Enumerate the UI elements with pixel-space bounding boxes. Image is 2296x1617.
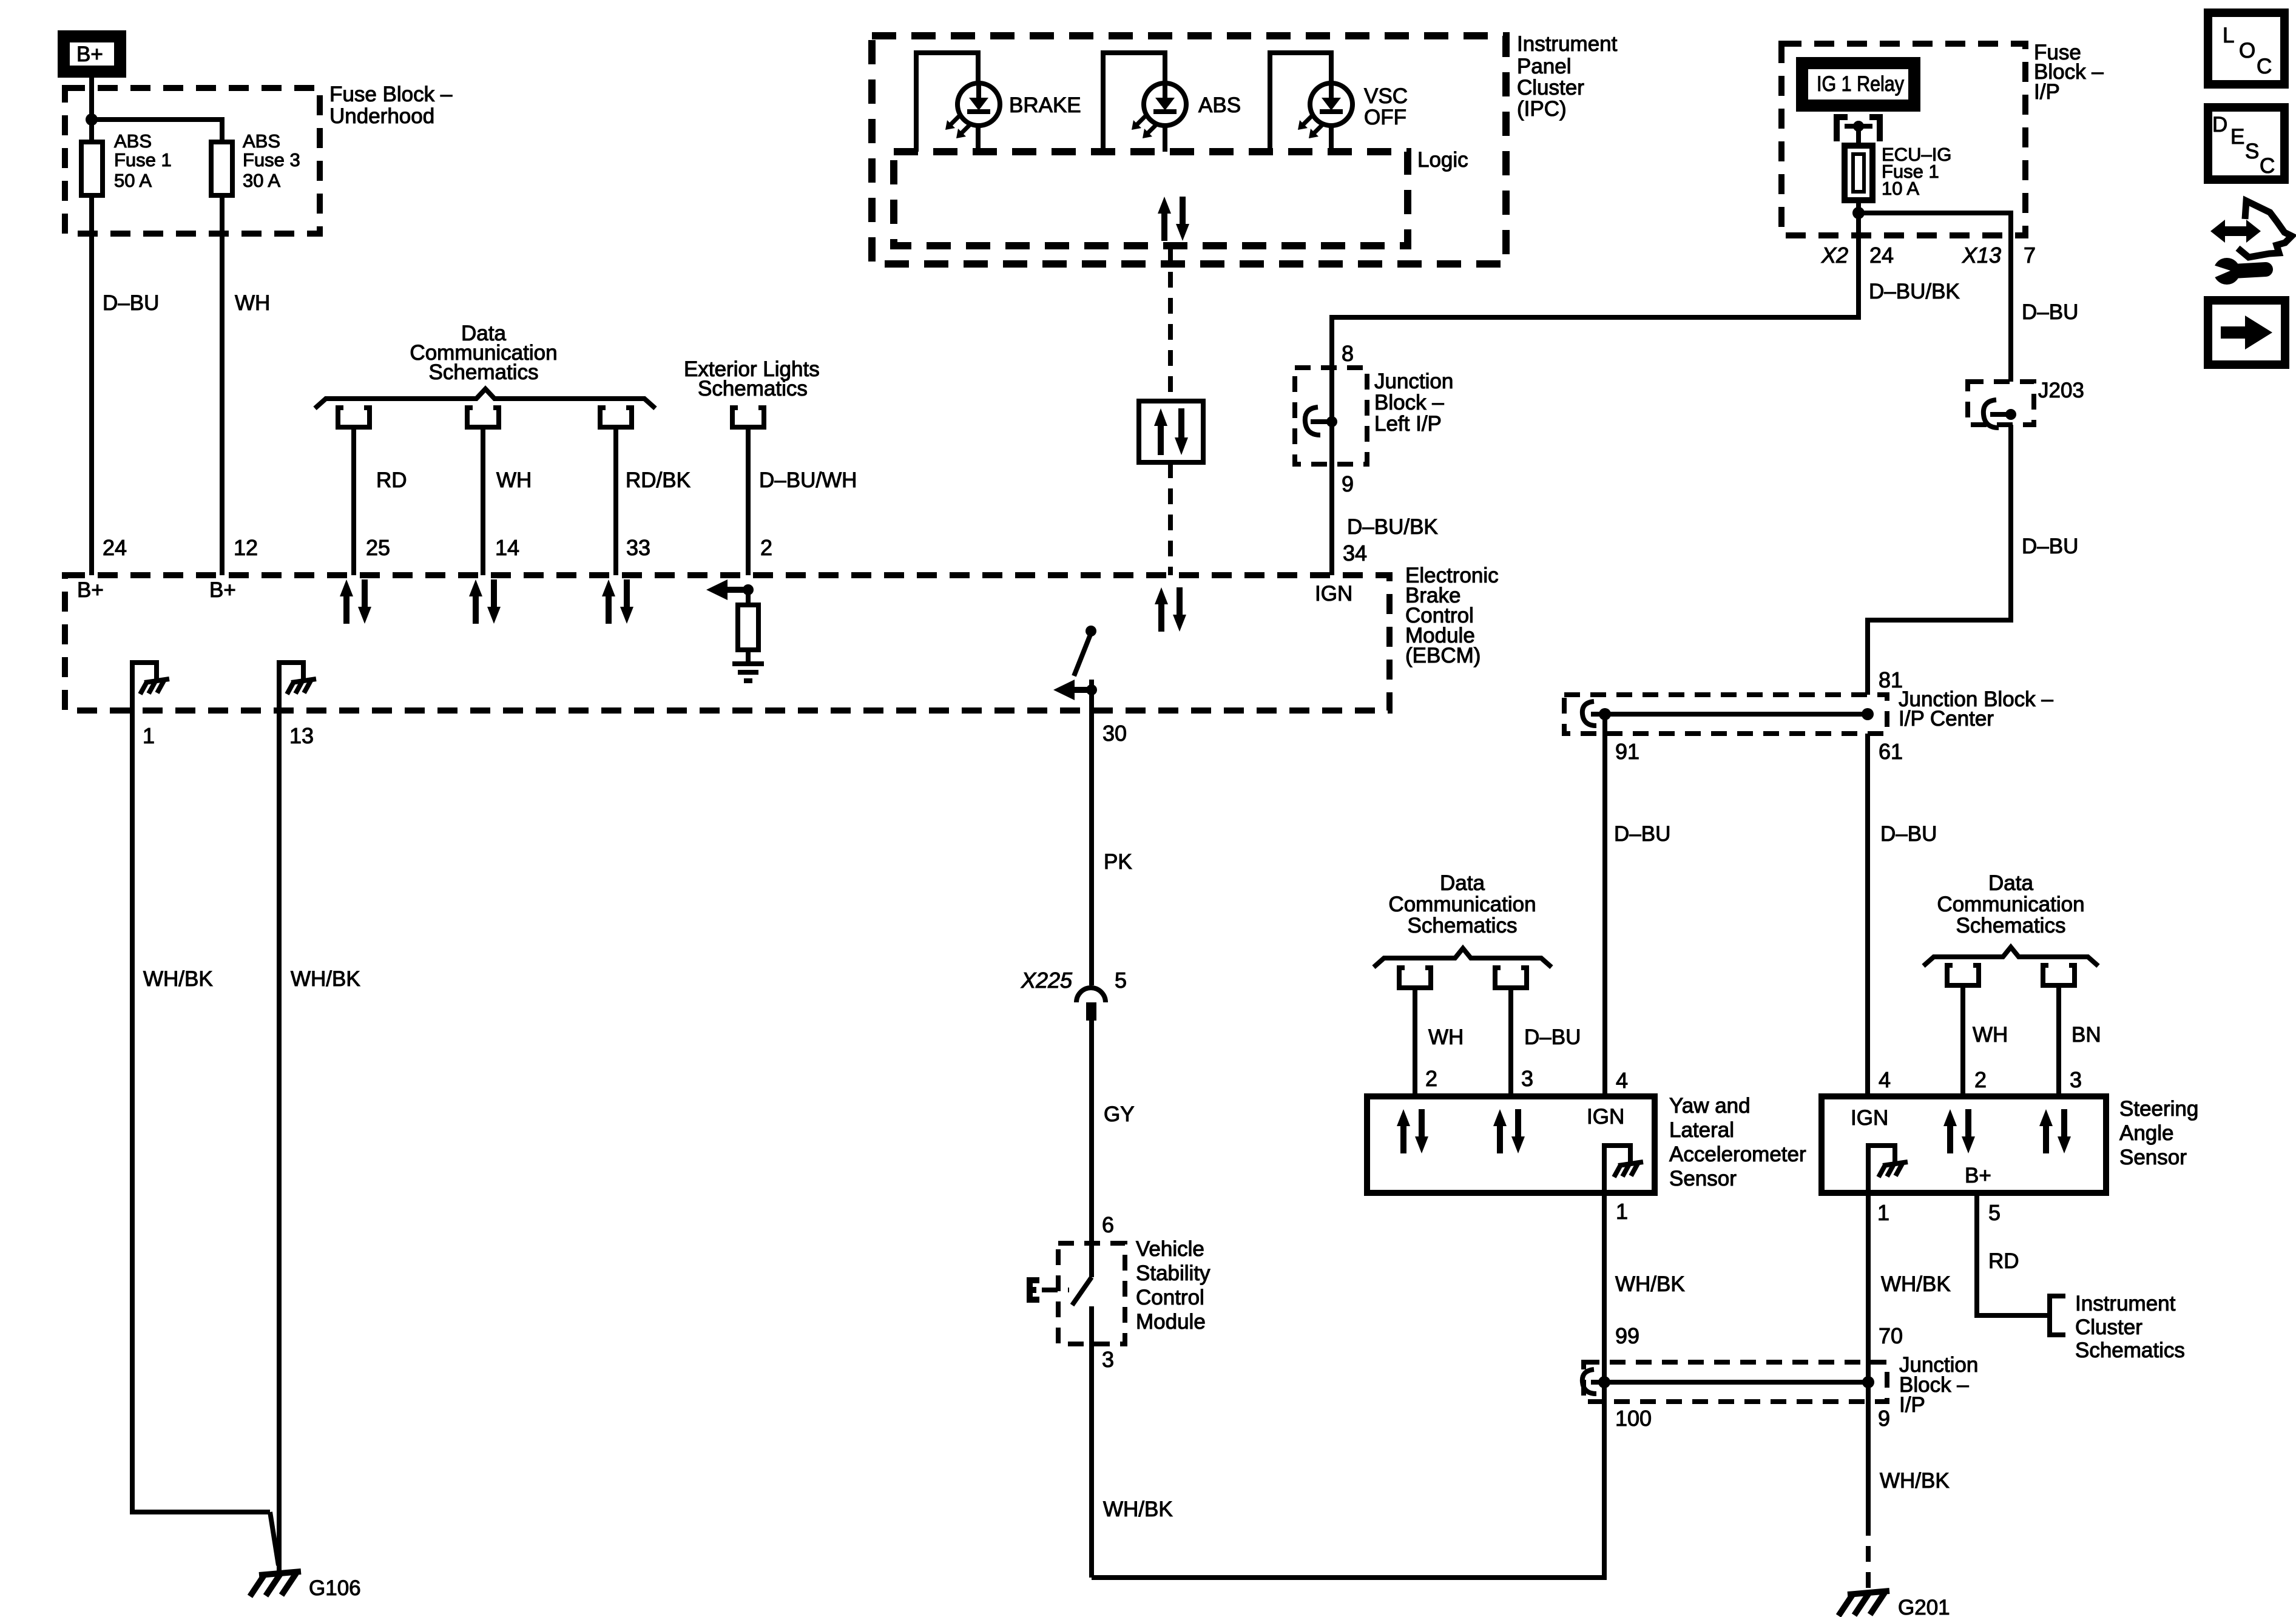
svg-text:Instrument: Instrument	[1517, 32, 1618, 56]
power feed B+ box	[64, 36, 120, 72]
svg-text:Data: Data	[1440, 871, 1485, 895]
svg-text:G106: G106	[309, 1576, 361, 1600]
svg-text:E: E	[2230, 125, 2244, 149]
data arrows at IPC link	[1155, 587, 1186, 632]
wire WH to steering pin 2	[1960, 985, 1965, 1096]
svg-text:Accelerometer: Accelerometer	[1669, 1143, 1806, 1166]
svg-text:S: S	[2245, 140, 2259, 163]
fuse block I/P box	[1781, 44, 2025, 235]
wire WH to yaw pin 2	[1413, 988, 1417, 1096]
svg-text:Schematics: Schematics	[1956, 914, 2066, 937]
svg-text:D–BU: D–BU	[2022, 300, 2078, 324]
diagnostic hand/wrench icon	[2210, 201, 2292, 285]
wire loop VSC OFF lamp	[1270, 53, 1331, 152]
svg-text:C: C	[2257, 55, 2272, 78]
ground G201	[1838, 1591, 1889, 1616]
svg-text:VSC: VSC	[1364, 84, 1408, 108]
svg-text:13: 13	[289, 723, 314, 748]
svg-text:Instrument: Instrument	[2075, 1292, 2176, 1315]
wire loop ABS lamp	[1103, 53, 1165, 152]
indicator LED ABS	[1132, 83, 1186, 138]
internal ground yaw	[1604, 1146, 1643, 1193]
connector (WH) yaw pin 2	[1399, 968, 1431, 988]
svg-text:5: 5	[1988, 1200, 2001, 1225]
svg-text:12: 12	[234, 535, 258, 560]
data arrows yaw left	[1397, 1109, 1428, 1153]
svg-text:Block –: Block –	[1374, 391, 1444, 414]
wire B+ to ABS Fuse 1	[89, 78, 94, 142]
svg-text:Lateral: Lateral	[1669, 1118, 1734, 1142]
data arrows at pin 14	[469, 579, 501, 624]
svg-text:D–BU/BK: D–BU/BK	[1869, 280, 1960, 303]
wire WH to EBCM pin 14	[481, 427, 485, 575]
svg-text:Angle: Angle	[2119, 1121, 2174, 1145]
svg-text:WH/BK: WH/BK	[1103, 1497, 1173, 1521]
svg-text:Fuse 1: Fuse 1	[114, 149, 172, 170]
connector E to VSC switch	[1030, 1280, 1069, 1300]
data arrows yaw right	[1493, 1109, 1525, 1153]
svg-text:B+: B+	[209, 578, 236, 602]
svg-text:RD: RD	[376, 468, 407, 492]
svg-text:2: 2	[760, 535, 772, 560]
svg-text:Logic: Logic	[1417, 148, 1468, 172]
svg-text:30 A: 30 A	[243, 170, 280, 191]
svg-text:3: 3	[2070, 1067, 2082, 1092]
svg-text:9: 9	[1878, 1406, 1890, 1431]
earth ground inside EBCM	[732, 664, 764, 681]
svg-text:PK: PK	[1104, 850, 1132, 874]
svg-text:D–BU: D–BU	[103, 291, 159, 315]
svg-text:14: 14	[495, 535, 519, 560]
svg-text:IGN: IGN	[1851, 1106, 1888, 1130]
data arrows steering left	[1943, 1109, 1975, 1153]
svg-text:2: 2	[1425, 1066, 1437, 1091]
svg-text:Underhood: Underhood	[329, 104, 434, 128]
svg-text:D–BU/WH: D–BU/WH	[759, 468, 857, 492]
instrument panel cluster box	[872, 36, 1506, 264]
svg-text:1: 1	[143, 723, 155, 748]
svg-text:Communication: Communication	[1937, 893, 2084, 916]
resistor inside EBCM	[746, 590, 751, 605]
svg-text:D–BU: D–BU	[1524, 1025, 1581, 1049]
svg-text:Vehicle: Vehicle	[1136, 1237, 1204, 1261]
wire through junction block left I/P	[1329, 368, 1334, 575]
wire branch to ABS Fuse 3	[92, 120, 222, 142]
wire fuse to junction	[1856, 200, 1861, 213]
svg-text:Schematics: Schematics	[2075, 1338, 2185, 1362]
svg-text:99: 99	[1615, 1323, 1639, 1348]
svg-text:WH/BK: WH/BK	[1881, 1272, 1951, 1296]
inline connector X225	[1076, 988, 1106, 1021]
internal ground at pin 13	[279, 663, 316, 711]
svg-text:B+: B+	[76, 42, 103, 66]
wire RD/BK to EBCM pin 33	[613, 427, 618, 575]
svg-text:D–BU/BK: D–BU/BK	[1347, 515, 1438, 539]
svg-text:10 A: 10 A	[1882, 178, 1919, 199]
svg-text:Control: Control	[1136, 1286, 1204, 1309]
svg-text:3: 3	[1521, 1066, 1533, 1091]
svg-text:Data: Data	[1988, 871, 2033, 895]
svg-text:Left I/P: Left I/P	[1374, 412, 1442, 436]
dashed wire logic to comm box	[1168, 246, 1173, 401]
svg-text:91: 91	[1615, 739, 1639, 764]
svg-text:B+: B+	[77, 578, 104, 602]
wire RD steering pin 5	[1977, 1193, 2047, 1315]
node below fuse	[1852, 207, 1865, 219]
relay IG 1 Relay	[1802, 63, 1914, 106]
svg-text:WH: WH	[1428, 1025, 1464, 1049]
svg-text:Schematics: Schematics	[1408, 914, 1518, 937]
LOC icon box	[2208, 13, 2284, 84]
indicator LED VSC OFF	[1298, 83, 1352, 138]
svg-text:RD/BK: RD/BK	[626, 468, 690, 492]
svg-text:2: 2	[1974, 1067, 1987, 1092]
ground G106	[250, 1571, 301, 1596]
junction block I/P center box	[1564, 695, 1887, 734]
junction block left I/P box	[1295, 368, 1367, 464]
bus hook inside junction block left I/P	[1305, 407, 1337, 435]
vehicle stability control module box	[1058, 1243, 1125, 1344]
wire WH/BK yaw pin 1 to junction block	[1602, 1193, 1607, 1578]
fuse ECU-IG Fuse 1 10 A	[1845, 146, 1872, 200]
svg-text:I/P Center: I/P Center	[1899, 707, 1994, 731]
svg-text:Stability: Stability	[1136, 1261, 1210, 1285]
switch inside EBCM at pin 30	[1053, 626, 1097, 711]
svg-text:ABS: ABS	[1198, 93, 1241, 117]
svg-text:WH/BK: WH/BK	[1880, 1469, 1950, 1493]
svg-text:1: 1	[1616, 1199, 1628, 1224]
wire to X13 pin 7	[1859, 213, 2011, 382]
svg-text:25: 25	[366, 535, 390, 560]
wire GY	[1089, 1021, 1094, 1277]
svg-text:WH: WH	[496, 468, 532, 492]
svg-text:6: 6	[1102, 1212, 1114, 1237]
svg-text:WH: WH	[1973, 1023, 2008, 1047]
data arrows steering right	[2039, 1109, 2071, 1153]
svg-text:OFF: OFF	[1364, 106, 1406, 129]
steering angle sensor box	[1822, 1096, 2106, 1193]
wire WH/BK from EBCM pin 1	[132, 711, 270, 1512]
svg-text:34: 34	[1343, 541, 1367, 565]
data arrows at pin 33	[602, 579, 633, 624]
DESC icon box	[2208, 107, 2284, 180]
svg-text:D–BU: D–BU	[2022, 535, 2078, 558]
serial data box	[1139, 401, 1203, 462]
svg-text:Panel: Panel	[1517, 55, 1572, 78]
EBCM box	[65, 575, 1389, 711]
svg-text:C: C	[2260, 154, 2275, 178]
wire WH/BK from EBCM pin 13	[277, 711, 282, 1573]
svg-text:5: 5	[1115, 968, 1127, 993]
svg-text:I/P: I/P	[2034, 80, 2060, 104]
dashed wire comm box to EBCM	[1168, 462, 1173, 575]
brace steering	[1923, 947, 2098, 966]
svg-text:X13: X13	[1962, 243, 2001, 268]
fuse F1: ABS Fuse 1 50 A	[81, 142, 103, 195]
svg-text:50 A: 50 A	[114, 170, 152, 191]
svg-text:X225: X225	[1021, 968, 1073, 993]
svg-text:ABS: ABS	[114, 130, 152, 152]
connector (WH) steering pin 2	[1947, 965, 1979, 985]
svg-text:Sensor: Sensor	[2119, 1146, 2187, 1169]
svg-text:X2: X2	[1821, 243, 1848, 268]
svg-text:IGN: IGN	[1587, 1105, 1624, 1129]
bus bar inside junction block I/P	[1582, 1369, 1874, 1394]
fuse block underhood box	[65, 88, 320, 234]
svg-text:7: 7	[2024, 243, 2036, 268]
data arrows at pin 25	[340, 579, 371, 624]
svg-text:B+: B+	[1965, 1164, 1991, 1187]
svg-text:D–BU: D–BU	[1880, 822, 1937, 846]
svg-text:ABS: ABS	[243, 130, 280, 152]
funnel joint to ground wire	[270, 1512, 279, 1565]
svg-text:24: 24	[103, 535, 127, 560]
connector (D-BU) yaw pin 3	[1495, 968, 1527, 988]
wire RD to EBCM pin 25	[351, 427, 356, 575]
svg-text:Communication: Communication	[1388, 893, 1536, 916]
bus bar inside junction block I/P center	[1582, 701, 1874, 726]
logic box	[894, 152, 1408, 246]
svg-text:70: 70	[1879, 1323, 1903, 1348]
connector to instrument cluster schematics	[2050, 1296, 2065, 1335]
svg-text:IG 1 Relay: IG 1 Relay	[1817, 72, 1904, 96]
brace yaw	[1374, 948, 1551, 967]
svg-text:BN: BN	[2071, 1023, 2101, 1047]
svg-text:I/P: I/P	[1899, 1393, 1925, 1417]
internal ground steering	[1868, 1146, 1908, 1193]
svg-text:Schematics: Schematics	[429, 360, 539, 384]
svg-text:Steering: Steering	[2119, 1097, 2198, 1121]
wire PK from EBCM pin 30	[1089, 711, 1094, 985]
svg-text:30: 30	[1102, 721, 1127, 746]
switch inside VSC module	[1072, 1277, 1092, 1305]
svg-text:GY: GY	[1104, 1102, 1135, 1126]
svg-text:24: 24	[1869, 243, 1894, 268]
wire WH from fuse 3 to EBCM pin 12	[220, 195, 225, 575]
svg-text:(EBCM): (EBCM)	[1405, 644, 1481, 667]
svg-text:L: L	[2223, 24, 2234, 47]
connector to exterior lights	[732, 408, 764, 427]
svg-text:RD: RD	[1988, 1249, 2019, 1273]
svg-text:Fuse 3: Fuse 3	[243, 149, 300, 170]
svg-text:WH/BK: WH/BK	[143, 967, 213, 991]
svg-text:O: O	[2239, 39, 2255, 62]
connector (BN) steering pin 3	[2043, 965, 2075, 985]
svg-text:8: 8	[1342, 341, 1354, 366]
svg-text:WH/BK: WH/BK	[291, 967, 360, 991]
bus hook inside J203	[1984, 400, 2016, 428]
svg-text:33: 33	[626, 535, 650, 560]
svg-text:Cluster: Cluster	[2075, 1315, 2142, 1339]
wire D-BU pin 61 to steering sensor	[1865, 734, 1870, 1096]
brace	[315, 389, 655, 408]
wire WH/BK from VSC pin 3	[1092, 1402, 1604, 1578]
J203 splice box	[1968, 382, 2034, 425]
svg-text:3: 3	[1102, 1347, 1114, 1372]
svg-text:D–BU: D–BU	[1614, 822, 1670, 846]
wire X2 pin 24 down and left to junction block left I/P	[1332, 213, 1859, 368]
indicator LED BRAKE	[945, 83, 1000, 138]
svg-text:G201: G201	[1898, 1596, 1950, 1617]
wire D-BU from J203 down to junction block I/P center	[1868, 425, 2011, 695]
wire BN to steering pin 3	[2056, 985, 2061, 1096]
svg-text:BRAKE: BRAKE	[1009, 93, 1081, 117]
svg-text:4: 4	[1616, 1068, 1628, 1093]
junction block I/P box (bottom)	[1584, 1362, 1887, 1402]
forward arrow icon box	[2208, 300, 2285, 365]
svg-text:100: 100	[1615, 1406, 1652, 1431]
data arrows inside logic	[1158, 197, 1189, 241]
svg-text:D: D	[2212, 113, 2227, 137]
svg-text:WH/BK: WH/BK	[1615, 1272, 1685, 1296]
svg-text:Schematics: Schematics	[698, 377, 808, 400]
node: B+ branch junction	[86, 113, 98, 126]
wire relay to fuse	[1856, 126, 1861, 146]
fuse F3: ABS Fuse 3 30 A	[211, 142, 232, 195]
svg-text:Module: Module	[1136, 1310, 1206, 1334]
relay output terminal bracket	[1837, 117, 1880, 141]
wire D-BU from fuse 1 to EBCM pin 24	[89, 195, 94, 575]
svg-text:Cluster: Cluster	[1517, 76, 1584, 100]
svg-text:Sensor: Sensor	[1669, 1167, 1737, 1190]
internal ground at pin 1	[132, 663, 169, 711]
wire loop BRAKE lamp	[916, 53, 978, 152]
wire D-BU pin 91 to yaw sensor	[1602, 714, 1607, 1096]
yaw and lateral accelerometer sensor box	[1367, 1096, 1655, 1193]
svg-text:Yaw and: Yaw and	[1669, 1094, 1751, 1118]
wire D-BU/WH to EBCM pin 2	[746, 427, 751, 575]
wire WH/BK steering pin 1	[1866, 1193, 1871, 1520]
svg-text:4: 4	[1879, 1067, 1891, 1092]
svg-text:1: 1	[1877, 1200, 1889, 1225]
svg-text:WH: WH	[235, 291, 270, 315]
svg-text:Junction: Junction	[1374, 370, 1453, 393]
svg-text:(IPC): (IPC)	[1517, 97, 1567, 121]
svg-text:IGN: IGN	[1315, 582, 1352, 606]
connector to data communication (WH)	[467, 408, 499, 427]
svg-text:61: 61	[1879, 739, 1903, 764]
connector to data communication (RD)	[338, 408, 370, 427]
signal arrow at pin 2	[706, 579, 754, 600]
svg-text:J203: J203	[2038, 379, 2084, 402]
connector to data communication (RD/BK)	[600, 408, 632, 427]
wire D-BU to yaw pin 3	[1508, 988, 1513, 1096]
svg-text:9: 9	[1342, 471, 1354, 496]
light arrows	[945, 116, 970, 138]
svg-text:Fuse Block –: Fuse Block –	[329, 83, 453, 106]
